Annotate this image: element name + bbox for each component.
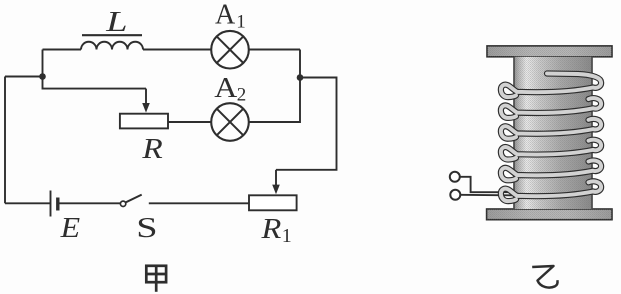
wire left vertical top (42, 50, 44, 77)
wire battery to switch (59, 202, 120, 204)
lamp A2 (211, 103, 249, 141)
coil winding turn 5 (501, 161, 601, 181)
bottom flange (487, 209, 612, 220)
terminal T2 (450, 190, 460, 200)
coil winding turn 6 (501, 181, 601, 201)
svg-text:L: L (105, 6, 127, 38)
wire left rail to battery (5, 202, 51, 204)
svg-text:E: E (60, 211, 81, 243)
wire inductor to lamp A1 (143, 49, 212, 51)
coil winding turn 2 (501, 98, 601, 118)
coil winding turn 3 (501, 119, 601, 139)
svg-text:R: R (260, 213, 281, 245)
wire node A down to R branch (43, 77, 147, 89)
battery E (51, 191, 58, 217)
lead wire from T1 (460, 177, 516, 192)
core cylinder (514, 57, 592, 209)
wire node A to left rail (5, 76, 43, 78)
wire right vertical into node B (299, 50, 301, 78)
wire R box to lamp A2 (168, 121, 211, 123)
switch S (120, 195, 141, 207)
label yi (乙) (532, 266, 557, 288)
arrow onto R (142, 89, 150, 113)
rheostat R1 box (249, 195, 297, 210)
node B junction dot (297, 74, 304, 81)
svg-text:R: R (141, 132, 162, 164)
lead wire from T2 (460, 194, 516, 197)
svg-text:1: 1 (282, 225, 292, 247)
inductor L (81, 35, 143, 49)
coil winding turn 4 (501, 140, 601, 160)
terminal T1 (450, 172, 460, 182)
wire switch to R1 (149, 202, 249, 204)
coil winding turn 1 (501, 74, 601, 98)
svg-text:1: 1 (236, 12, 246, 33)
svg-text:2: 2 (237, 85, 247, 106)
wire left rail vertical (4, 77, 6, 204)
wire node B to R1 wiper (276, 78, 337, 170)
wire node B down to lamp A2 (249, 78, 300, 123)
top flange (487, 46, 612, 57)
arrow onto R1 (272, 170, 280, 194)
svg-text:A: A (215, 0, 236, 31)
svg-text:A: A (214, 71, 237, 103)
lamp A1 (211, 31, 249, 69)
label jia (甲) (146, 266, 166, 292)
resistor R (rheostat box) (120, 114, 168, 129)
wire top-left horizontal (43, 49, 82, 51)
wire lamp A1 to right corner (249, 49, 300, 51)
node A junction dot (39, 73, 46, 80)
svg-text:S: S (136, 212, 157, 244)
